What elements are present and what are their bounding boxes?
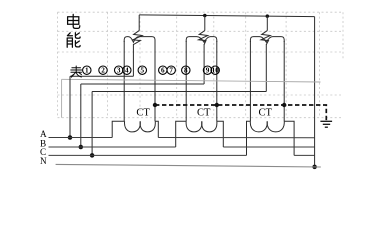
node: earth link CT3 [282, 103, 286, 107]
drawing canvas dashed gridline col3 [139, 12, 141, 118]
svg-text:CT: CT [197, 107, 211, 118]
terminal 1 [83, 66, 91, 75]
CT1 primary loop 1 [124, 121, 140, 132]
CT3 primary loop 2 [267, 121, 284, 132]
meter element 1 voltage tap wire [132, 44, 134, 76]
terminal 2 [99, 66, 107, 75]
wire: terminal jumper row line [70, 75, 133, 77]
ground symbol [320, 121, 332, 127]
bus A phase line [49, 137, 315, 139]
terminal 8 [182, 66, 190, 75]
svg-text:N: N [40, 156, 47, 166]
bus N neutral line [56, 164, 321, 167]
node: junction neutral bus [312, 165, 317, 170]
meter element 3 current lead right to CT3 [283, 41, 285, 121]
CT1 primary loop 2 [140, 121, 155, 132]
meter element 1 voltage coil zigzag [138, 15, 140, 31]
meter element 2 voltage tap wire [203, 44, 205, 84]
node: junction top rail element2 [203, 14, 207, 18]
drawing canvas dashed gridline col1 [57, 12, 59, 118]
svg-text:2: 2 [101, 67, 105, 75]
wire: terminal jumper row line 2 [81, 83, 204, 85]
terminal 7 [167, 66, 175, 75]
meter element 3 current coil arch [250, 37, 284, 43]
terminal 9 [203, 66, 211, 75]
drawing canvas dashed gridline col2 [107, 12, 109, 118]
svg-text:8: 8 [184, 67, 188, 75]
wire: voltage lead phase B drop [80, 84, 82, 147]
meter element 2 current lead left to CT2 [185, 41, 187, 121]
bus C phase line [49, 154, 315, 156]
CT1 primary riser from bus A [112, 121, 124, 137]
node: phase A voltage tap [68, 135, 73, 140]
terminal 5 [138, 66, 146, 75]
CT3 primary loop 1 [250, 121, 267, 132]
label 表 [71, 66, 82, 77]
wire: terminal jumper row line 3 [92, 91, 266, 93]
node: phase C voltage tap [90, 153, 95, 158]
drawing canvas dashed gridline col6 [245, 12, 247, 118]
CT2 primary loop 2 [202, 121, 217, 132]
CT3 primary exit to bus C [284, 121, 294, 155]
meter element 3 voltage coil zigzag [266, 16, 268, 31]
svg-text:10: 10 [212, 67, 220, 75]
bus B phase line [49, 146, 315, 148]
CT2 primary loop 1 [186, 121, 202, 132]
wire: neutral down lead right side [314, 17, 316, 167]
meter box left edge light line [61, 79, 63, 117]
svg-text:3: 3 [117, 67, 121, 75]
drawing canvas dashed gridline row6 [58, 117, 342, 119]
svg-text:7: 7 [169, 67, 173, 75]
meter element 2 current coil arch [186, 37, 217, 43]
drawing canvas dashed gridline row2 [58, 30, 342, 32]
meter element 2 voltage coil zigzag [204, 16, 206, 31]
drawing canvas dashed gridline col8 [342, 12, 344, 60]
wire: voltage lead phase A drop [69, 76, 71, 137]
terminal 6 [159, 66, 167, 75]
node: earth link CT1 [153, 103, 157, 107]
wire: voltage lead phase C drop [91, 92, 93, 156]
CT3 primary riser from bus C [247, 121, 251, 155]
svg-text:5: 5 [141, 67, 145, 75]
terminal 3 [115, 66, 123, 75]
CT2 primary exit to bus B [217, 121, 224, 147]
svg-text:A: A [40, 129, 47, 139]
CT1 primary exit to bus A [155, 121, 158, 137]
drawing canvas dashed gridline row5 [58, 94, 342, 96]
meter element 3 voltage tap wire [265, 44, 267, 92]
meter element 1 current lead right to CT1 [154, 41, 156, 121]
drawing canvas dashed gridline col4 [176, 12, 178, 118]
drawing canvas dashed gridline col right [319, 12, 321, 118]
meter element 1 current coil arch [124, 37, 155, 43]
node: earth link CT2 [215, 103, 219, 107]
node: junction top rail element3 [266, 14, 270, 18]
svg-text:9: 9 [206, 67, 210, 75]
svg-text:1: 1 [85, 67, 89, 75]
drawing canvas dashed gridline col7 [285, 12, 287, 118]
node: phase B voltage tap [79, 145, 84, 150]
meter element 1 current lead left to CT1 [123, 41, 125, 122]
svg-text:6: 6 [161, 67, 165, 75]
CT2 primary riser from bus B [176, 121, 187, 147]
label 电 [68, 14, 80, 28]
label 能 [67, 33, 80, 47]
meter element 2 current lead right to CT2 [216, 41, 218, 121]
svg-text:CT: CT [136, 107, 150, 118]
meter box bottom edge light line [62, 79, 321, 82]
wire: neutral top rail [139, 15, 314, 17]
terminal 4 [123, 66, 131, 75]
meter element 3 current lead left to CT3 [249, 41, 251, 121]
terminal 10 [211, 66, 219, 75]
drawing canvas dashed gridline top [58, 11, 342, 13]
drawing canvas dashed gridline row3 [58, 51, 342, 53]
svg-text:4: 4 [125, 67, 129, 75]
svg-text:CT: CT [259, 107, 273, 118]
drawing canvas dashed gridline col5 [213, 12, 215, 118]
earth link bold dashed [155, 105, 326, 120]
